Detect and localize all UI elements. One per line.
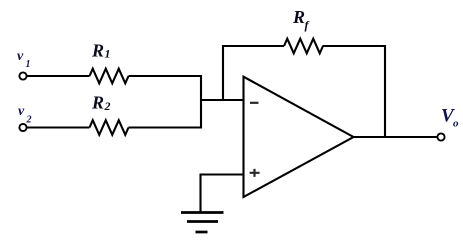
svg-text:R: R [292,7,305,27]
op-amp minus pin marking [250,102,259,104]
wire feedback vertical [222,45,224,101]
resistor R1 [90,69,129,84]
wire junction vertical R1/R2 [200,75,202,129]
wire noninverting input [200,173,244,175]
node Vo terminal [437,133,444,140]
wire inverting input [200,99,244,101]
svg-text:1: 1 [26,59,31,70]
ground [181,213,224,233]
op-amp U1 [244,77,354,197]
svg-text:R: R [91,41,104,61]
node v1 terminal [19,72,26,79]
svg-text:1: 1 [105,47,111,61]
svg-text:2: 2 [26,115,32,126]
wire R2 to junction [129,127,203,129]
svg-text:v: v [17,49,24,64]
wire ground vertical [199,174,201,213]
wire feedback top left [222,45,284,47]
wire v2 to R2 [27,127,90,129]
svg-text:f: f [305,18,310,32]
wire output [353,136,438,138]
wire feedback top right [323,45,387,47]
resistor Rf [284,39,323,54]
svg-text:o: o [453,118,459,130]
op-amp plus pin marking [250,169,260,177]
svg-text:2: 2 [104,99,111,113]
wire feedback right vertical [384,45,386,138]
resistor R2 [90,120,129,135]
wire R1 to junction [129,75,203,77]
svg-text:v: v [18,104,25,119]
svg-text:R: R [91,93,104,113]
node v2 terminal [19,124,26,131]
wire v1 to R1 [27,75,90,77]
